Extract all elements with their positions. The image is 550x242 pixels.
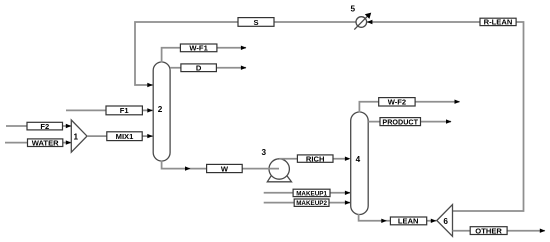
stream label MAKEUP1 <box>293 189 330 197</box>
arrow W-F1 <box>241 46 247 50</box>
stream label WATER <box>28 139 63 148</box>
stream label W <box>207 164 243 173</box>
svg-text:RICH: RICH <box>306 154 325 163</box>
arrow OTHER <box>540 229 546 233</box>
arrow D <box>241 66 247 70</box>
svg-text:MIX1: MIX1 <box>116 132 135 141</box>
svg-text:MAKEUP2: MAKEUP2 <box>296 200 327 207</box>
wire W line from column 2 bottom to pump 3 <box>162 161 279 169</box>
column 4 <box>351 112 369 215</box>
stream label F1 <box>106 106 142 115</box>
svg-text:2: 2 <box>158 105 163 114</box>
stream label RICH <box>297 154 333 163</box>
stream label S <box>238 18 274 27</box>
svg-text:F1: F1 <box>120 106 130 115</box>
arrow LEAN before label <box>381 219 387 223</box>
svg-text:4: 4 <box>356 155 361 164</box>
wire WATER feed line <box>5 142 71 144</box>
stream label MIX1 <box>107 132 142 141</box>
wire MAKEUP2 feed line <box>264 202 350 204</box>
wire D line from column 2 side <box>170 67 246 69</box>
wire recycle S top line from column 2 up-left through S box to exchanger 5 <box>135 22 356 85</box>
stream label PRODUCT <box>380 117 421 126</box>
wire MAKEUP1 feed line <box>264 192 350 194</box>
wire W-F2 line from column 4 top <box>359 102 459 113</box>
pump 3 <box>267 159 291 182</box>
wire PRODUCT line from column 4 side <box>368 121 451 123</box>
wire F1 feed line <box>66 109 153 111</box>
svg-text:W-F2: W-F2 <box>388 98 406 107</box>
wire LEAN line from column 4 bottom to splitter 6 <box>359 214 437 221</box>
svg-text:S: S <box>253 18 258 27</box>
svg-text:R-LEAN: R-LEAN <box>484 18 513 27</box>
arrow PRODUCT <box>446 119 452 123</box>
stream label LEAN <box>390 217 426 226</box>
exchanger 5 <box>354 13 371 30</box>
arrow WATER into mixer 1 <box>66 140 72 144</box>
svg-text:PRODUCT: PRODUCT <box>382 117 418 126</box>
svg-text:W-F1: W-F1 <box>189 44 208 53</box>
wire R-LEAN line from splitter 6 up and left to exchanger 5 <box>367 22 524 211</box>
svg-text:3: 3 <box>262 148 267 157</box>
arrow S into column 2 <box>147 83 153 87</box>
svg-text:LEAN: LEAN <box>398 217 419 226</box>
arrow LEAN into splitter 6 <box>431 219 437 223</box>
svg-text:OTHER: OTHER <box>475 226 502 235</box>
wire W-F1 line from column 2 top <box>162 48 246 63</box>
stream label F2 <box>27 122 63 131</box>
arrow MAKEUP2 into column 4 <box>345 200 351 204</box>
svg-text:F2: F2 <box>40 122 49 131</box>
arrow W mid-line <box>185 166 191 170</box>
wire OTHER line from splitter 6 <box>453 230 545 232</box>
arrow into exchanger 5 (pointing left) <box>367 20 373 24</box>
arrow F1 into column 2 <box>147 108 153 112</box>
stream label W-F2 <box>379 98 415 107</box>
stream label MAKEUP2 <box>294 199 329 207</box>
svg-text:5: 5 <box>351 5 356 14</box>
stream label OTHER <box>470 226 507 235</box>
splitter 6 <box>437 205 453 237</box>
svg-text:1: 1 <box>74 132 79 141</box>
stream label D <box>181 64 217 73</box>
arrow RICH into column 4 <box>345 157 351 161</box>
svg-text:D: D <box>196 64 202 73</box>
stream label R-LEAN <box>480 18 516 27</box>
svg-text:6: 6 <box>443 217 448 226</box>
arrow MAKEUP1 into column 4 <box>345 191 351 195</box>
wire F2 feed line <box>6 125 71 127</box>
wire RICH line from pump 3 to column 4 <box>279 158 349 160</box>
column 2 <box>153 62 170 161</box>
mixer 1 <box>71 120 87 152</box>
arrow W-F2 <box>455 100 461 104</box>
arrow F2 into mixer 1 <box>66 124 72 128</box>
stream label W-F1 <box>180 44 217 53</box>
svg-text:MAKEUP1: MAKEUP1 <box>296 190 327 197</box>
arrow MIX1 into column 2 <box>147 134 153 138</box>
wire MIX1 line from mixer to column 2 <box>87 135 153 137</box>
svg-text:WATER: WATER <box>32 139 59 148</box>
svg-text:W: W <box>221 164 229 173</box>
